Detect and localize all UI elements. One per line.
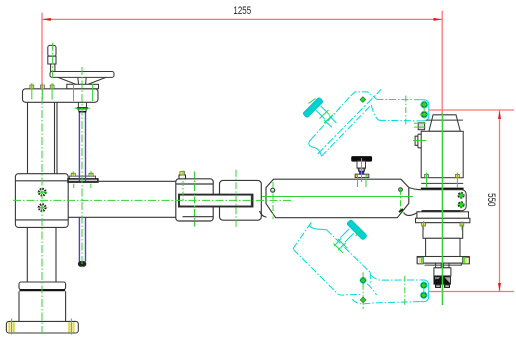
- clevis pin circle left: [271, 188, 275, 192]
- neck top curve: [409, 188, 422, 190]
- base flange: [6, 321, 78, 333]
- neck bottom curve: [404, 211, 419, 215]
- phantom lower: stem ticks: [334, 239, 348, 253]
- phantom upper: band left edge: [311, 96, 351, 140]
- knob centerlines: [361, 158, 363, 182]
- collar green hline: [75, 107, 91, 109]
- phantom upper: clevis pentagon: [351, 92, 377, 99]
- bracket bolts: [457, 192, 464, 209]
- chuck stem: [436, 263, 449, 267]
- right arm solid green line: [262, 196, 413, 198]
- spindle cylinder B: [426, 238, 460, 256]
- phantom upper: break wave: [309, 140, 322, 157]
- dim 1255 line: [42, 18, 442, 20]
- phantom lower: band lower edge: [293, 250, 361, 296]
- elbow center bar: [179, 195, 253, 207]
- dim 550 top extension: [429, 109, 515, 111]
- head bracket block: [422, 190, 467, 211]
- elbow knuckle bolt: [179, 171, 186, 202]
- phantom lower: knob stem: [340, 229, 353, 242]
- lower flange 1: [417, 212, 469, 219]
- phantom upper: stem ticks: [320, 110, 334, 123]
- rod blue lines upper segment: [79, 113, 85, 182]
- phantom upper: diamond bolt: [360, 97, 366, 103]
- dim 1255 right extension: [441, 11, 443, 114]
- cap boss lines: [414, 123, 426, 127]
- arm horizontal centerline: [13, 199, 292, 201]
- spindle flange: [417, 257, 469, 264]
- arm knob (black T-handle): [352, 157, 372, 178]
- elbow left knuckle: [176, 179, 213, 221]
- base boss body: [19, 291, 66, 321]
- rod clamp on arm: [68, 171, 98, 188]
- base flange bolt strips: [8, 319, 74, 335]
- column lower body: [27, 227, 56, 282]
- phantom bracket bolts green (over cyan circles): [420, 101, 428, 300]
- base boss top lip: [19, 282, 66, 290]
- rod upper neck below plate: [78, 102, 86, 107]
- elbow right knuckle: [220, 180, 262, 220]
- rod blue lines lower segment: [79, 218, 85, 262]
- clevis pin circle right: [399, 188, 403, 192]
- cap side boss: [418, 123, 424, 130]
- phantom lower: clevis top edge to bracket: [371, 275, 420, 280]
- block bolt upper: [39, 189, 46, 211]
- arm right segment hexagon: [266, 179, 409, 218]
- phantom lower: clevis pin circle: [360, 278, 366, 284]
- dim 1255 right arrow: [434, 18, 442, 21]
- bracket thick bottom: [422, 210, 461, 212]
- phantom lower group: [293, 220, 428, 304]
- arm pivot block: [15, 174, 68, 228]
- phantom lower: clevis lower-right edge: [367, 284, 377, 295]
- top plate bolts: [30, 83, 54, 100]
- handwheel handle centerline: [52, 43, 54, 79]
- phantom upper: bracket centerline: [405, 96, 407, 125]
- svg-text:1255: 1255: [233, 5, 251, 18]
- phantom upper: clevis-to-bracket curve: [371, 105, 379, 120]
- phantom upper: knob stem: [316, 106, 329, 119]
- body side boss: [415, 134, 422, 148]
- fillet right knuckle to arm: [260, 211, 267, 217]
- phantom upper: bracket top/bottom dashes: [376, 98, 420, 100]
- flange green marks: [421, 257, 464, 264]
- left pin centerline: [272, 182, 274, 219]
- lower flange 2: [416, 218, 470, 222]
- phantom lower: knob bar (filled): [347, 220, 368, 241]
- spindle cylinder A: [423, 223, 463, 239]
- handwheel hub: [78, 77, 86, 84]
- phantom lower: diamond centerline: [362, 272, 364, 309]
- handwheel base plate: [67, 84, 99, 88]
- right knuckle centerline: [235, 170, 237, 227]
- phantom upper: knob bar (filled): [303, 97, 324, 118]
- lower flange bolts: [422, 221, 464, 230]
- phantom lower: break wave: [310, 223, 327, 230]
- column upper body: [28, 102, 58, 173]
- phantom upper: bracket rounded end: [420, 100, 429, 121]
- motor bottom flange lines: [421, 182, 463, 184]
- phantom lower: band upper edge: [327, 230, 371, 272]
- hub plate bolt lines: [74, 84, 93, 101]
- phantom lower: clevis bottom curve to bracket: [352, 299, 420, 304]
- right pin centerline: [400, 189, 402, 213]
- body boss line: [413, 140, 426, 142]
- flange end caps: [417, 257, 423, 264]
- dim 1255 left extension: [41, 13, 43, 89]
- handwheel spokes: [58, 77, 106, 84]
- head main centerline: [441, 113, 443, 305]
- dim 550 line: [499, 110, 501, 292]
- block bolt crosses: [37, 192, 47, 207]
- dim 1255 left arrow: [43, 18, 51, 21]
- dim 550 top arrow: [498, 111, 501, 119]
- phantom upper: axis centerline: [318, 89, 382, 154]
- phantom lower: diamond bolts: [360, 278, 366, 284]
- handwheel rim: [50, 72, 114, 78]
- motor body bottom bolts: [425, 173, 460, 189]
- column centerline: [41, 83, 43, 335]
- motor cap trapezoid: [429, 115, 460, 132]
- rod axis centerline: [81, 67, 83, 268]
- handwheel group: [48, 45, 114, 88]
- vertical screw rod: [75, 102, 91, 266]
- base boss thick line: [20, 289, 66, 291]
- handwheel handle grip: [48, 45, 56, 56]
- phantom lower: bracket rounded end: [420, 280, 428, 302]
- dim 550 bottom extension: [429, 291, 515, 293]
- phantom lower: bracket centerline: [404, 276, 406, 306]
- motor cap seam line: [426, 119, 463, 121]
- rod bottom cap: [78, 262, 85, 267]
- chuck jaws black: [434, 276, 451, 288]
- rod top collar: [77, 107, 89, 109]
- phantom lower: clevis vertical edge: [369, 272, 371, 283]
- column top plate: [23, 89, 99, 103]
- motor body: [421, 131, 463, 177]
- svg-text:550: 550: [485, 193, 498, 207]
- left knuckle centerline: [194, 172, 196, 227]
- phantom upper: band right edge: [322, 105, 372, 156]
- phantom lower: band left short edge: [293, 223, 311, 250]
- phantom lower: bolt circle: [421, 282, 427, 288]
- clevis tick mark: [399, 209, 403, 212]
- phantom upper: bolt circles: [421, 101, 428, 108]
- arm left segment: [68, 181, 176, 217]
- chuck body: [434, 268, 451, 276]
- dim 550 bottom arrow: [498, 283, 501, 291]
